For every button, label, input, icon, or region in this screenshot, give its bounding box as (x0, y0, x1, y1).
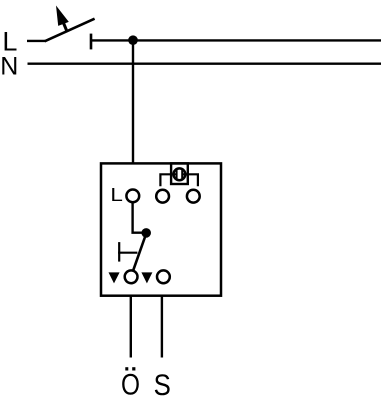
svg-text:O: O (121, 368, 140, 400)
wire L feed (27, 40, 45, 42)
switch S1 actuation arrow (56, 6, 69, 32)
glow lamp E1 bulb (174, 168, 186, 180)
svg-text:S: S (154, 369, 171, 400)
terminal lamp-left circle (156, 190, 169, 203)
terminal L circle (126, 190, 139, 203)
svg-text:L: L (110, 185, 123, 205)
svg-text:N: N (0, 53, 18, 81)
label Ö (121, 367, 140, 400)
wire drop to device (132, 40, 134, 163)
glow lamp E1 right lead (182, 174, 198, 186)
wire L terminal to pivot (133, 203, 143, 233)
wire S output (161, 296, 163, 358)
arrow marker terminal S (141, 272, 152, 283)
wire L bus (91, 39, 381, 41)
wire Ö output (130, 296, 132, 358)
wire N bus (28, 63, 381, 65)
arrow marker terminal Ö (109, 272, 120, 283)
terminal lamp-right circle (187, 190, 200, 203)
switch pivot dot (141, 228, 151, 238)
terminal S circle (157, 270, 170, 283)
switch S1 fixed contact (90, 34, 93, 50)
switch S1 lever (45, 19, 95, 42)
glow lamp E1 electrodes (177, 169, 183, 179)
device box U1 (101, 163, 221, 295)
junction dot on L (128, 35, 138, 45)
internal switch lever (133, 233, 146, 270)
glow lamp E1 housing (171, 163, 188, 184)
terminal Ö circle (125, 270, 138, 283)
glow lamp E1 left lead (160, 174, 176, 186)
actuator bracket (118, 242, 137, 262)
